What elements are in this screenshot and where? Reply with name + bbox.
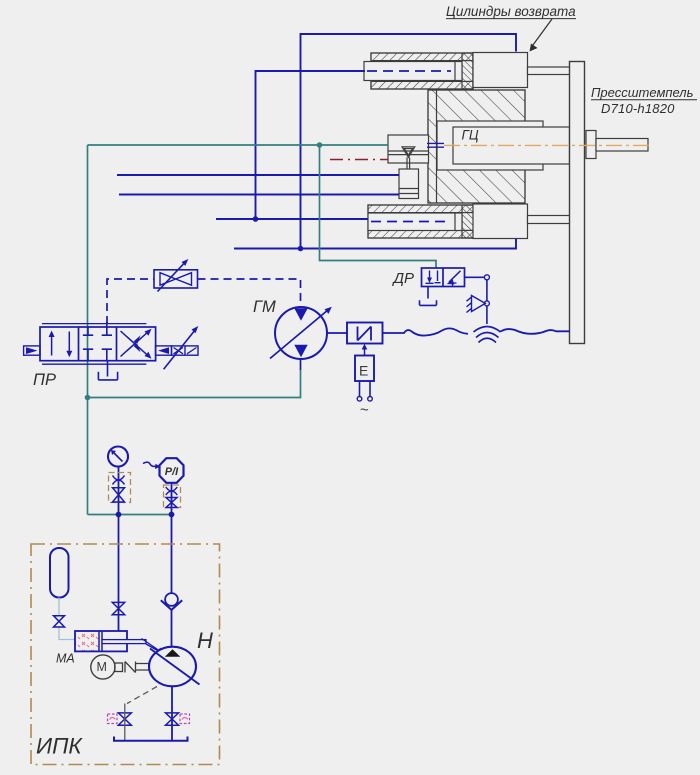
return cylinder top: body <box>371 53 473 89</box>
shut-off valve on gauge line <box>112 602 124 614</box>
RD line down to pump <box>171 483 173 648</box>
svg-text:Н: Н <box>197 628 213 653</box>
electric box E <box>355 344 374 401</box>
pivot flapper triangle <box>467 296 486 313</box>
svg-text:Цилиндры возврата: Цилиндры возврата <box>446 4 576 19</box>
tag left valve <box>108 714 118 724</box>
tank of station <box>114 737 188 741</box>
svg-text:~: ~ <box>360 402 369 419</box>
svg-text:ИПК: ИПК <box>36 734 83 759</box>
amplifier box I <box>347 323 383 344</box>
svg-text:ГЦ: ГЦ <box>462 128 479 143</box>
link DR to pivot node <box>465 276 485 278</box>
flexible hose wavy line <box>383 328 469 335</box>
wire: teal branch down to DR valve <box>320 145 437 268</box>
wire: teal bottom run to gauges <box>88 514 172 516</box>
return cylinder bottom: body <box>368 205 474 238</box>
tank under PR <box>98 361 117 380</box>
valve PR left position arrows <box>49 331 73 358</box>
return cylinder top: rod <box>364 62 462 81</box>
return cylinder bottom: rod link to plate <box>528 216 571 224</box>
filler box on block left <box>388 135 429 163</box>
press main block (hatched body) <box>428 90 525 203</box>
node: teal junctions <box>317 142 323 148</box>
wire: feed into GC cylinder (double line) <box>427 143 444 147</box>
electric motor M <box>91 655 149 679</box>
drain valve right <box>166 713 179 725</box>
check valve on pump line <box>161 593 182 610</box>
moving plate (press crosshead) <box>570 62 585 344</box>
pump to tank line <box>171 686 173 740</box>
valve PR right position cross arrows <box>121 329 152 359</box>
wire: supply over top to piston block <box>301 34 517 249</box>
return cylinder top: piston block <box>473 53 528 88</box>
return cylinder bottom: rod dashed centerline <box>371 221 451 223</box>
wire: lower branch to bottom cylinder rod <box>216 218 368 220</box>
breather funnel <box>402 147 415 186</box>
svg-text:Е: Е <box>359 363 368 379</box>
svg-text:Прессштемпель: Прессштемпель <box>591 85 694 100</box>
return cylinder bottom: piston block <box>473 204 528 239</box>
wire: lower branch to bottom piston block <box>234 239 516 249</box>
svg-text:D710-h1820: D710-h1820 <box>601 101 675 116</box>
wire: teal main line to filler box <box>88 144 389 146</box>
solenoid right of PR (proportional) <box>156 326 199 369</box>
solenoid left of PR <box>24 346 40 355</box>
svg-text:P/I: P/I <box>165 466 179 478</box>
pilot dashed line PR to throttle to GM <box>107 279 301 324</box>
tank under DR <box>420 287 437 306</box>
gauge valve symbols 2 <box>166 487 177 508</box>
IPK station boundary <box>31 544 220 765</box>
isolation valve bracket 2 <box>164 485 181 508</box>
svg-text:ДР: ДР <box>392 270 415 287</box>
pump N <box>149 647 200 687</box>
drain valve left <box>118 713 131 725</box>
junction dots <box>253 216 259 222</box>
return cylinder top: rod dashed centerline <box>367 70 451 72</box>
hose slack coil <box>474 327 501 343</box>
main cylinder GC plunger <box>453 127 570 164</box>
wire: dark red dash-dot line <box>330 159 388 161</box>
node: blue junctions on teal run <box>116 512 122 518</box>
cylinder MA <box>75 631 164 655</box>
wire: supply to top cylinder rod <box>256 71 366 219</box>
press stem rod <box>596 139 648 152</box>
svg-text:М: М <box>97 660 107 674</box>
isolation valve bracket 1 <box>109 473 131 503</box>
wire: teal from PR junction to motor bottom <box>88 370 301 398</box>
throttle with arrow <box>154 259 198 292</box>
valve DR body <box>422 268 465 287</box>
hydraulic motor GM <box>270 307 332 370</box>
press stem block <box>586 131 596 159</box>
tag right valve <box>180 714 190 724</box>
svg-text:МА: МА <box>56 652 75 666</box>
wire: teal left vertical <box>87 145 89 515</box>
accumulator shut-off valve <box>54 616 65 627</box>
mechanical linkage dashed <box>127 687 157 704</box>
pressure gauge <box>108 447 128 467</box>
valve PR centre position ports <box>83 322 112 361</box>
gauge valve symbols 1 <box>113 476 125 503</box>
shaft GM to amplifier <box>327 332 347 334</box>
accumulator line (pale) <box>59 598 75 640</box>
accumulator <box>50 548 69 598</box>
svg-text:ГМ: ГМ <box>253 298 276 316</box>
gauge line down to MA cylinder <box>118 467 120 632</box>
wire: drain lines to cup <box>117 174 399 176</box>
drain cup <box>399 169 419 199</box>
svg-text:ПР: ПР <box>33 371 56 389</box>
orange axis centerline <box>444 144 653 146</box>
valve PR body <box>40 324 156 365</box>
return cylinder bottom: rod <box>368 213 462 231</box>
main cylinder GC sleeve <box>437 121 543 170</box>
pressure relay RD <box>143 458 184 483</box>
return cylinder top: rod link to plate <box>528 67 571 75</box>
